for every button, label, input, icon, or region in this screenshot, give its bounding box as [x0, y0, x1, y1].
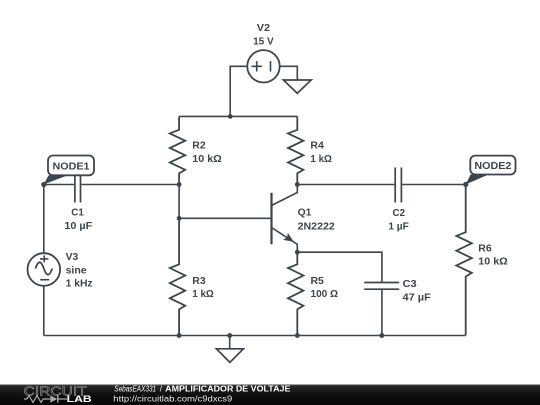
resistor R2 — [170, 116, 185, 184]
footer bar — [0, 385, 540, 405]
svg-text:1 kHz: 1 kHz — [66, 279, 93, 290]
transistor Q1 collector — [272, 185, 298, 206]
node NODE2 dot — [463, 182, 468, 187]
svg-text:2N2222: 2N2222 — [298, 221, 336, 232]
svg-text:47 µF: 47 µF — [403, 293, 431, 304]
svg-text:10 kΩ: 10 kΩ — [478, 257, 508, 268]
wire bottom rail — [44, 335, 466, 337]
svg-text:LAB: LAB — [67, 394, 93, 404]
wire NODE1 to C1 — [44, 184, 74, 186]
node NODE1 dot — [41, 182, 46, 187]
junction dot node1/C1/R2 — [177, 182, 182, 187]
capacitor C1 — [75, 168, 81, 203]
svg-text:Q1: Q1 — [298, 208, 312, 219]
svg-text:10 kΩ: 10 kΩ — [192, 154, 222, 165]
svg-text:R2: R2 — [192, 141, 206, 152]
wire V3 to bottom rail — [43, 286, 45, 336]
svg-text:C1: C1 — [71, 207, 84, 218]
wire base tap to Q1 — [179, 217, 271, 219]
node NODE2 flag — [466, 156, 516, 185]
capacitor C2 — [395, 168, 401, 203]
svg-text:C2: C2 — [393, 208, 406, 219]
svg-text:R3: R3 — [192, 276, 206, 287]
V3 plus sign — [40, 255, 48, 262]
svg-text:SebasEAX331: SebasEAX331 — [114, 385, 156, 394]
svg-text:R5: R5 — [311, 276, 325, 287]
svg-text:R4: R4 — [310, 141, 324, 152]
node NODE1 flag — [44, 156, 94, 185]
resistor R3 — [170, 218, 185, 335]
resistor R4 — [288, 116, 303, 184]
V2 bar symbol — [270, 61, 272, 72]
logo resistor zigzag — [24, 396, 50, 403]
junction dot R5 bottom — [295, 333, 300, 338]
wire C2 to NODE2 — [402, 184, 466, 186]
junction dot collector — [295, 182, 300, 187]
capacitor C3 — [364, 283, 399, 290]
junction dot ground stem — [227, 333, 232, 338]
wire NODE1 to V3 — [43, 185, 45, 254]
junction dot emitter — [295, 250, 300, 255]
transistor Q1 emitter arrow — [283, 233, 294, 242]
voltage source V3 circle — [28, 253, 61, 286]
wire top rail — [179, 115, 297, 117]
junction dot base tap — [177, 216, 182, 221]
svg-text:100 Ω: 100 Ω — [311, 289, 339, 300]
resistor R6 — [456, 184, 471, 335]
logo diode — [50, 395, 57, 402]
svg-text:NODE1: NODE1 — [53, 161, 90, 172]
svg-text:AMPLIFICADOR DE VOLTAJE: AMPLIFICADOR DE VOLTAJE — [165, 385, 291, 394]
transistor Q1 emitter — [272, 228, 298, 253]
voltage source V2 circle — [247, 50, 279, 82]
wire V2 right to ground — [280, 66, 298, 80]
V3 minus sign — [40, 279, 49, 281]
svg-text:10 µF: 10 µF — [64, 221, 92, 232]
svg-text:R6: R6 — [478, 243, 492, 254]
svg-text:1 µF: 1 µF — [388, 221, 408, 232]
svg-text:sine: sine — [66, 265, 87, 276]
svg-text:V2: V2 — [257, 23, 271, 34]
junction dot C3 bottom — [380, 333, 385, 338]
wire C3 to bottom rail — [381, 290, 383, 336]
ground (V2) — [283, 80, 311, 93]
wire emitter to C3 — [297, 252, 382, 282]
svg-text:NODE2: NODE2 — [474, 161, 511, 172]
ground (bottom) — [216, 349, 243, 363]
junction dot R3 bottom — [177, 333, 182, 338]
transistor Q1 base bar — [270, 193, 272, 245]
svg-text:1 kΩ: 1 kΩ — [310, 154, 332, 165]
wire collector to C2 — [297, 184, 394, 186]
wire V2 left feed — [230, 66, 247, 116]
wire C1 to base column — [81, 184, 179, 186]
V3 sine wave — [35, 262, 52, 274]
V2 plus sign — [252, 61, 262, 71]
svg-text:1 kΩ: 1 kΩ — [192, 289, 214, 300]
resistor R5 — [288, 252, 303, 335]
svg-text:15 V: 15 V — [253, 36, 274, 47]
wire base column — [178, 185, 180, 219]
svg-text:V3: V3 — [66, 252, 79, 263]
svg-text:http://circuitlab.com/c9dxcs9: http://circuitlab.com/c9dxcs9 — [113, 394, 233, 403]
wire ground stem — [229, 336, 231, 349]
svg-text:C3: C3 — [403, 279, 418, 290]
junction dot V2 feed — [228, 114, 233, 119]
